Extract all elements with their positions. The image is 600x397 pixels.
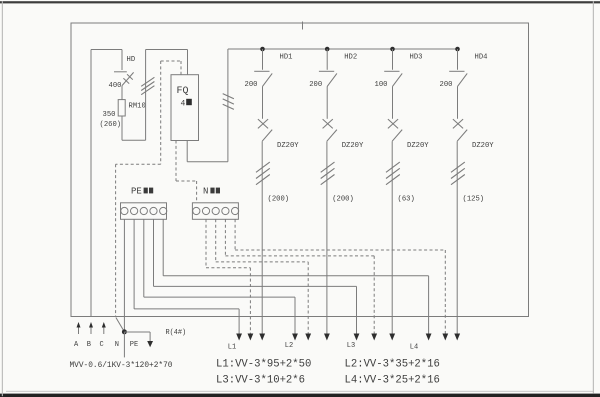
- label A: [74, 341, 79, 349]
- label 200 branch 2: [309, 81, 322, 89]
- wire PE bond to incoming node: [123, 219, 125, 330]
- wire to ground: [124, 332, 150, 341]
- svg-text:FQ: FQ: [177, 86, 189, 97]
- 3-phase marks branch 3: [386, 162, 400, 185]
- arrow PE L2: [292, 334, 298, 341]
- knife switch HD1: [254, 71, 272, 86]
- wire N dashed meter to N busbar: [176, 141, 197, 204]
- wire branch 1 mid: [262, 86, 264, 118]
- wire PE feed L2: [144, 219, 295, 334]
- label PE busbar: [131, 187, 153, 197]
- label L2: [285, 342, 293, 350]
- label incoming cable spec: [70, 362, 173, 370]
- label RM10: [129, 103, 146, 111]
- svg-text:L1: L1: [228, 344, 236, 352]
- wire N dashed to meter box: [161, 61, 181, 75]
- label HD4: [475, 54, 488, 62]
- svg-text:4: 4: [181, 100, 186, 109]
- label 200 branch 1: [245, 81, 258, 89]
- svg-text:N: N: [203, 187, 208, 197]
- label 400: [109, 82, 122, 90]
- label DZ20Y branch 2: [342, 142, 364, 150]
- arrow N L2: [305, 334, 311, 341]
- wire branch 3 outgoing: [391, 141, 393, 334]
- wire branch 3 drop: [392, 49, 394, 70]
- label 200 branch 4: [440, 81, 453, 89]
- arrow incoming phase A: [77, 322, 81, 334]
- wire N feed L4: [235, 219, 445, 334]
- label R(4#): [166, 329, 187, 337]
- wire branch 4 outgoing: [456, 141, 458, 334]
- wire N feed L1: [206, 219, 250, 334]
- arrow N L4: [442, 334, 448, 341]
- node HD2 bus junction: [325, 47, 330, 52]
- svg-text:R(4#): R(4#): [166, 329, 187, 337]
- label FQ: [177, 86, 189, 97]
- 3-phase marks on loop riser: [141, 77, 154, 94]
- svg-text:PE: PE: [131, 187, 142, 197]
- svg-text:HD3: HD3: [410, 54, 423, 62]
- wire switch to fuse: [121, 86, 123, 100]
- wire loop top 2: [146, 49, 188, 51]
- wire branch 2 mid: [326, 86, 328, 118]
- svg-text:L2:VV-3*35+2*16: L2:VV-3*35+2*16: [345, 359, 440, 371]
- wire switch drop: [121, 50, 123, 71]
- label N busbar: [203, 187, 220, 197]
- svg-text:B: B: [87, 341, 91, 349]
- svg-text:N: N: [115, 341, 119, 349]
- node HD3 bus junction: [390, 47, 395, 52]
- busbar N: [192, 203, 238, 220]
- wire branch 4 mid: [457, 86, 459, 118]
- svg-text:L1:VV-3*95+2*50: L1:VV-3*95+2*50: [216, 359, 311, 371]
- label L1 cable spec: [216, 359, 311, 371]
- svg-text:C: C: [100, 341, 104, 349]
- label DZ20Y branch 1: [277, 142, 299, 150]
- wire N dashed down-left leg: [116, 61, 161, 317]
- svg-text:HD2: HD2: [344, 54, 357, 62]
- arrow phase L2: [324, 334, 330, 341]
- label (125): [463, 196, 485, 204]
- wire PE feed L1: [134, 219, 239, 334]
- label (200): [332, 196, 354, 204]
- node HD4 bus junction: [455, 47, 460, 52]
- svg-text:(125): (125): [463, 196, 485, 204]
- wire PE feed L3: [154, 219, 357, 334]
- wire loop top left: [91, 49, 122, 51]
- arrow N L1: [248, 334, 254, 341]
- label DZ20Y branch 3: [407, 142, 429, 150]
- fuse RM10: [118, 100, 125, 116]
- svg-text:RM10: RM10: [129, 103, 146, 111]
- label N: [115, 341, 119, 349]
- busbar PE: [121, 203, 167, 220]
- top connection stub: [302, 22, 304, 30]
- wire branch 4 drop: [457, 49, 459, 70]
- wire drop into meter box: [187, 50, 189, 75]
- wire N feed L3: [225, 219, 374, 334]
- label HD1: [280, 54, 293, 62]
- wire meter box output: [187, 141, 228, 162]
- svg-text:DZ20Y: DZ20Y: [472, 142, 494, 150]
- wire PEN stub down: [123, 332, 125, 358]
- wire branch 1 outgoing: [261, 141, 263, 334]
- svg-text:DZ20Y: DZ20Y: [277, 142, 299, 150]
- wire branch 1 drop: [262, 49, 264, 70]
- label DZ20Y branch 4: [472, 142, 494, 150]
- svg-text:200: 200: [245, 81, 258, 89]
- svg-text:HD4: HD4: [475, 54, 488, 62]
- wire fuse down: [121, 116, 123, 140]
- svg-text:200: 200: [309, 81, 322, 89]
- label L3 cable spec: [216, 375, 305, 387]
- svg-text:MVV-0.6/1KV-3*120+2*70: MVV-0.6/1KV-3*120+2*70: [70, 362, 173, 370]
- arrow PE L4: [426, 334, 432, 341]
- label 4#: [181, 99, 192, 109]
- arrow incoming phase B: [89, 322, 93, 334]
- svg-text:100: 100: [375, 81, 388, 89]
- 3-phase marks on bus riser: [223, 94, 234, 110]
- breaker DZ20Y 2: [323, 119, 337, 141]
- arrow phase L4: [454, 334, 460, 341]
- svg-text:DZ20Y: DZ20Y: [342, 142, 364, 150]
- label L4: [410, 344, 418, 352]
- wire loop bottom: [122, 139, 146, 141]
- label HD: [127, 56, 136, 64]
- svg-text:DZ20Y: DZ20Y: [407, 142, 429, 150]
- breaker DZ20Y 3: [388, 119, 402, 141]
- svg-text:L4:VV-3*25+2*16: L4:VV-3*25+2*16: [345, 375, 440, 387]
- wire incoming 3-phase riser: [90, 50, 92, 317]
- label (260): [100, 121, 122, 129]
- label (63): [398, 196, 415, 204]
- knife switch HD3: [384, 71, 402, 86]
- svg-text:(260): (260): [100, 121, 122, 129]
- wire main bus riser: [227, 49, 229, 162]
- label B: [87, 341, 91, 349]
- wire PE feed L4: [163, 219, 428, 334]
- arrow N L3: [371, 334, 377, 341]
- svg-text:HD: HD: [127, 56, 136, 64]
- 3-phase marks branch 1: [256, 162, 270, 185]
- label HD2: [344, 54, 357, 62]
- node HD1 bus junction: [260, 47, 265, 52]
- knife switch HD2: [319, 71, 337, 86]
- svg-text:L3: L3: [347, 342, 355, 350]
- arrow incoming phase C: [102, 322, 106, 334]
- svg-text:(200): (200): [268, 196, 290, 204]
- wire loop right riser: [145, 50, 147, 141]
- svg-text:(200): (200): [332, 196, 354, 204]
- wire branch 3 mid: [392, 86, 394, 118]
- knife switch HD4: [449, 71, 467, 86]
- arrow phase L1: [259, 334, 265, 341]
- label L1: [228, 344, 236, 352]
- 3-phase marks branch 4: [451, 162, 465, 185]
- svg-text:A: A: [74, 341, 79, 349]
- svg-text:(63): (63): [398, 196, 415, 204]
- label HD3: [410, 54, 423, 62]
- label L4 cable spec: [345, 375, 440, 387]
- label C: [100, 341, 104, 349]
- knife switch HD: [114, 72, 134, 86]
- arrow PE L1: [236, 334, 242, 341]
- wire diagonal to PEN node: [116, 318, 125, 332]
- arrow phase L3: [389, 334, 395, 341]
- wire N feed L2: [216, 219, 309, 334]
- wire branch 2 drop: [326, 49, 328, 70]
- wire main bus: [228, 48, 458, 50]
- breaker DZ20Y 1: [258, 119, 272, 141]
- svg-text:350: 350: [103, 111, 116, 119]
- svg-text:L2: L2: [285, 342, 293, 350]
- ground arrow: [147, 341, 153, 347]
- svg-text:HD1: HD1: [280, 54, 293, 62]
- svg-text:200: 200: [440, 81, 453, 89]
- svg-text:PE: PE: [130, 341, 138, 349]
- cabinet enclosure outline: [71, 23, 529, 317]
- wire branch 2 outgoing: [326, 141, 328, 334]
- breaker DZ20Y 4: [453, 119, 467, 141]
- svg-text:L3:VV-3*10+2*6: L3:VV-3*10+2*6: [216, 375, 305, 387]
- svg-text:L4: L4: [410, 344, 418, 352]
- label (200): [268, 196, 290, 204]
- meter box FQ 4#: [171, 75, 199, 141]
- label L2 cable spec: [345, 359, 440, 371]
- label L3: [347, 342, 355, 350]
- label PE: [130, 341, 138, 349]
- 3-phase marks branch 2: [321, 162, 335, 185]
- arrow PE L3: [354, 334, 360, 341]
- node PEN junction: [122, 329, 127, 334]
- label 350: [103, 111, 116, 119]
- svg-text:400: 400: [109, 82, 122, 90]
- label 100 branch 3: [375, 81, 388, 89]
